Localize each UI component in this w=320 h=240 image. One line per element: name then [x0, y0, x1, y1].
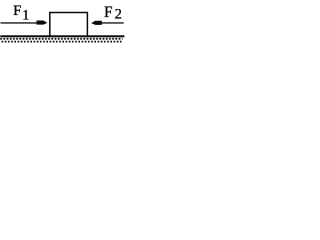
force label F2: [104, 4, 122, 23]
block: [50, 13, 88, 37]
svg-text:1: 1: [22, 8, 29, 24]
svg-text:2: 2: [115, 7, 122, 23]
force label F1: [13, 3, 29, 23]
ground line: [0, 35, 124, 37]
force arrow F2: [91, 21, 124, 25]
force arrow F1: [1, 21, 48, 25]
svg-text:F: F: [13, 3, 21, 19]
ground hatching: [0, 38, 123, 43]
svg-text:F: F: [104, 4, 113, 21]
